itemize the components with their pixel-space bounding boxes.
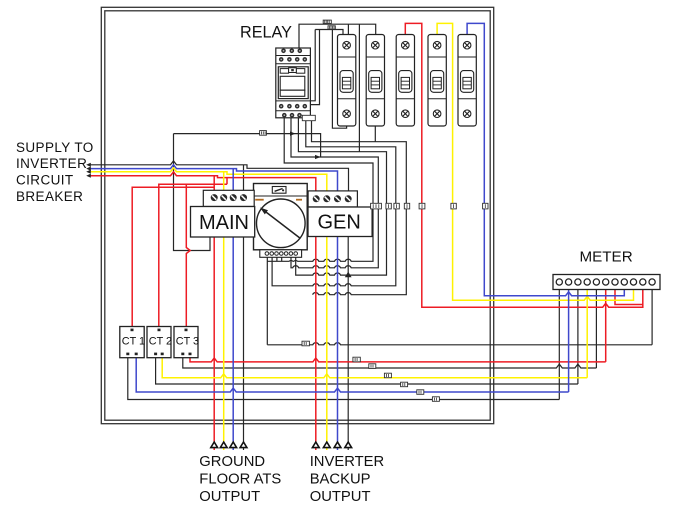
svg-text:CT 1: CT 1 [122,336,145,348]
wire label box on relay output H3 [260,131,267,136]
wire label box on blue CB5 drop [483,203,488,209]
wire red MAIN phase drop to ground floor ATS output [213,237,215,450]
svg-text:SUPPLY TO: SUPPLY TO [16,140,94,155]
panel enclosure inner border [105,11,490,420]
wire blue MAIN phase drop [232,237,234,450]
wire black lower ATS run y5 [312,121,407,295]
current transformer CT 1 box [120,327,144,358]
changeover switch S1 rotary knob [257,199,306,248]
relay K1 top terminal row (3 screws) [281,49,302,54]
wire black relay top feed H1 to CB1/CB2 tops [299,24,376,152]
wire blue supply line L3 with taps [89,165,338,191]
wire label box on meter line 11 [302,341,309,346]
relay K1 third terminal row (4 screws) [279,104,307,109]
circuit breaker CB3 [396,35,414,127]
wire label box on red CB3 drop [419,203,425,209]
wire blue CT1 right secondary to meter terminal 2 [136,290,568,393]
output arrowhead black ATS [240,442,247,448]
wire label box on black CT3 line [369,364,376,369]
changeover switch S1 top icon [272,187,286,194]
svg-text:GROUND: GROUND [199,454,265,470]
svg-text:RELAY: RELAY [240,23,292,41]
supply wire arrow yellow line [86,170,91,174]
wire red GEN phase drop to inverter backup output [315,237,317,451]
circuit breaker CB1 [338,35,356,127]
wire black relay to ATS terminal 6 (loop via right riser) [291,118,378,268]
svg-text:INVERTER: INVERTER [310,454,385,470]
wire label box on riser 4 [394,203,399,209]
wire label box on riser 5 [404,203,409,209]
svg-text:INVERTER: INVERTER [16,156,87,171]
wire label box on risers 1-2 [371,203,382,209]
wire yellow CB4 top loop down to meter terminal 9 [437,23,633,300]
svg-text:METER: METER [580,248,633,265]
wire black CT3 left secondary to meter terminal 5 [183,290,597,369]
changeover switch S1 body [254,184,308,250]
circuit breaker CB4 [428,35,446,127]
GEN label box [308,207,372,237]
wire black neutral L from supply vertical to MAIN box bottom [174,134,211,251]
top connector block 1 [323,20,331,23]
svg-text:MAIN: MAIN [199,212,249,234]
output arrowhead yellow inverter [323,442,330,448]
wire yellow MAIN phase drop [223,237,225,450]
meter terminal strip [553,275,660,290]
wire black GEN phase drop to inverter backup output [347,237,349,451]
wire black relay right contact risers [309,30,343,105]
current transformer CT 2 box [147,327,171,358]
output arrowhead black inverter [345,442,352,448]
wire red CB3 top loop down to meter terminal 10 [405,23,643,307]
wire label box on yellow CT2 line [384,373,391,378]
changeover switch S1 bottom terminal strip [260,250,302,257]
wire red CT1 primary feed stair [132,187,214,327]
wire label box on black CT2 line [401,382,408,387]
wire red CT2/CT3 primary feed stair [159,184,227,327]
svg-text:CT 3: CT 3 [176,336,199,348]
top connector block 2 [328,26,335,29]
output arrowhead blue inverter [334,442,341,448]
relay K1 bottom terminal row (3 screws) [282,113,302,118]
wire black CB1 bottom loop to top connector [332,30,346,129]
output arrowhead blue ATS [230,442,237,448]
wire red CT3 right secondary to meter terminal 6 [190,290,606,362]
supply wire arrow black [86,163,91,167]
wire black relay to ATS terminal 7 [296,118,387,275]
supply wire arrow blue line [86,167,91,171]
wire black supply-to-inverter line N (to MAIN and GEN blocks) [89,161,349,191]
current transformer CT 3 box [174,327,198,358]
wire label box on black CT1 line [432,397,439,402]
wire label box on red CT3 line [353,357,360,362]
wire black ATS terminal 1 to meter terminal 11 [267,257,652,345]
wire black relay to ATS terminal 3 [267,118,373,261]
junction arrow on H3 [290,132,296,136]
svg-text:FLOOR ATS: FLOOR ATS [199,472,281,488]
output arrowhead red ATS [211,442,218,448]
svg-text:BACKUP: BACKUP [310,472,371,488]
wire black MAIN phase drop to ground floor ATS output [243,237,245,450]
svg-text:OUTPUT: OUTPUT [310,489,371,505]
wire label box on riser 3 [386,203,391,209]
circuit breaker CB5 [458,35,476,127]
panel enclosure outer border [101,7,493,423]
wire red supply line L1 with taps to MAIN and GEN screw 1 [89,172,316,191]
wire label box on yellow CB4 drop [451,203,456,209]
supply wire arrow red line [86,174,91,178]
MAIN label box [191,207,255,238]
junction arrow on H157 [315,155,321,159]
wire yellow supply line L2 with taps [89,168,327,191]
changeover switch S1 MAINS/GEN tiny legends [255,199,302,201]
wire yellow CT2 right secondary to meter terminal 4 [162,290,587,378]
relay bottom label plate [302,115,315,120]
wire black CB2 bottom stub [374,126,376,142]
output arrowhead yellow ATS [220,442,227,448]
wire black CT1 left secondary to meter terminal 1 [128,290,560,400]
svg-text:CT 2: CT 2 [149,336,172,348]
wire blue CB5 top loop down to meter terminal 8 [467,23,624,295]
circuit breaker CB2 [366,35,384,127]
MAIN terminal block [203,190,254,206]
svg-text:GEN: GEN [318,212,361,234]
wire black CT2 left secondary to meter terminal 3 [156,290,578,385]
wire black relay area to ATS terminal 2 [272,121,396,286]
wire blue GEN phase drop [337,237,339,451]
output arrowhead red inverter [312,442,319,448]
wire red meter terminal 7 jumper [615,290,643,305]
svg-text:CIRCUIT: CIRCUIT [16,173,74,188]
relay K1 display window [278,67,308,99]
wire label box on blue CT1 line [417,390,424,395]
relay K1 body [276,48,311,118]
wire yellow GEN phase drop [326,237,328,451]
svg-text:OUTPUT: OUTPUT [199,489,260,505]
junction arrow on ATS run y3 [345,272,352,278]
svg-text:BREAKER: BREAKER [16,189,83,204]
wire black relay output horizontal H3 [174,134,321,157]
GEN terminal block [308,191,357,207]
relay K1 second terminal row (4 screws) [279,57,307,62]
